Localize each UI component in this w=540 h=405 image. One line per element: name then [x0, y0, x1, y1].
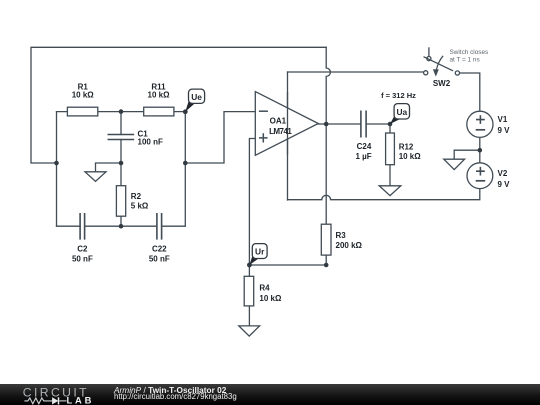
svg-text:200 kΩ: 200 kΩ: [336, 241, 363, 250]
svg-text:C24: C24: [357, 142, 372, 151]
svg-text:Ua: Ua: [396, 107, 407, 117]
svg-text:OA1: OA1: [270, 117, 287, 126]
wire output vertical with hop: [326, 47, 330, 124]
wire Ue vertical: [184, 112, 186, 226]
svg-text:100 nF: 100 nF: [138, 137, 163, 146]
svg-text:10 kΩ: 10 kΩ: [399, 152, 422, 161]
wire R4 stem: [248, 265, 250, 326]
wire left vertical R1/C2 branch: [56, 112, 58, 226]
ground at supply midpoint: [444, 159, 465, 169]
CircuitLab logo: [0, 384, 110, 405]
node dot Ue: [183, 109, 188, 114]
voltage source V2: [467, 163, 493, 189]
wire opamp power vertical: [287, 72, 289, 200]
svg-text:f = 312 Hz: f = 312 Hz: [381, 91, 416, 100]
wire R1 row: [57, 111, 186, 113]
wire Z path to inverting input: [185, 112, 255, 163]
resistor R11: [144, 107, 174, 116]
capacitor C22: [157, 213, 162, 240]
node dot Ur: [247, 263, 252, 268]
node dot output: [324, 122, 329, 127]
node dot Ue lower: [183, 161, 188, 166]
wire opamp output: [318, 123, 326, 125]
node label Ua: [390, 104, 410, 124]
wire C1 stem: [120, 112, 122, 163]
ground below R4: [239, 326, 260, 336]
node dot feedback left: [54, 161, 59, 166]
resistor R12: [386, 133, 395, 165]
svg-text:R4: R4: [259, 284, 270, 293]
svg-text:LAB: LAB: [67, 394, 95, 405]
resistor R4: [244, 276, 254, 306]
wire ground elbow at C1/R2 node: [96, 163, 122, 172]
node dot C1 top: [119, 109, 124, 114]
wire R2 stem: [120, 163, 122, 226]
svg-text:10 kΩ: 10 kΩ: [148, 90, 171, 99]
footer bar: [0, 384, 540, 405]
svg-text:10 kΩ: 10 kΩ: [72, 90, 95, 99]
wire twin-T bottom rail: [57, 225, 186, 227]
svg-text:SW2: SW2: [433, 79, 451, 88]
svg-text:C2: C2: [77, 244, 88, 253]
wire C24 row: [326, 123, 390, 125]
svg-text:50 nF: 50 nF: [72, 254, 93, 263]
ground below R12: [379, 186, 401, 196]
wire output down to R3: [325, 124, 327, 265]
svg-text:R3: R3: [336, 231, 347, 240]
svg-text:R2: R2: [131, 192, 142, 201]
voltage source V1: [467, 111, 493, 137]
svg-text:1 µF: 1 µF: [356, 152, 372, 161]
wire ground elbow at supply midpoint: [454, 150, 480, 159]
svg-text:LM741: LM741: [269, 127, 292, 136]
capacitor C2: [80, 213, 85, 240]
svg-text:R12: R12: [399, 143, 414, 152]
resistor R3: [321, 224, 331, 255]
wire V1 to V2: [479, 137, 481, 163]
node dot C1/R2: [119, 161, 124, 166]
wire non-inverting input: [249, 139, 255, 266]
node dot R3 bottom: [324, 263, 329, 268]
wire Ur row: [249, 264, 326, 266]
wire opamp V+ to switch: [288, 71, 424, 73]
node dot Ua: [388, 122, 393, 127]
wire switch to V1: [459, 73, 479, 111]
svg-text:C22: C22: [152, 244, 167, 253]
svg-text:at T = 1 ns: at T = 1 ns: [450, 57, 480, 64]
node dot R2 bottom: [119, 224, 124, 229]
svg-text:50 nF: 50 nF: [149, 254, 170, 263]
resistor R1: [67, 107, 97, 116]
svg-text:Ue: Ue: [191, 92, 202, 102]
op-amp OA1: [255, 92, 318, 156]
svg-text:10 kΩ: 10 kΩ: [259, 294, 282, 303]
svg-text:Ur: Ur: [255, 247, 265, 257]
opamp power vertical overdraw: [287, 92, 289, 155]
svg-text:5 kΩ: 5 kΩ: [131, 202, 149, 211]
switch SW2: [424, 47, 460, 76]
svg-text:Switch closes: Switch closes: [450, 49, 489, 56]
svg-text:V2: V2: [498, 169, 508, 178]
capacitor C1: [108, 135, 135, 140]
resistor R2: [116, 186, 125, 217]
node label Ue: [185, 89, 204, 112]
node dot supply midpoint: [478, 148, 483, 153]
ground at C1/R2 node: [85, 172, 106, 182]
capacitor C24: [361, 111, 366, 138]
credit text: [114, 386, 226, 394]
node label Ur: [249, 244, 267, 265]
svg-text:V1: V1: [498, 115, 508, 124]
svg-text:9 V: 9 V: [498, 126, 511, 135]
svg-text:9 V: 9 V: [498, 180, 511, 189]
wire R12 stem: [389, 124, 391, 186]
label switch closes: [450, 49, 489, 63]
wire top feedback loop: [31, 47, 326, 163]
wire bottom supply rail with hop: [288, 189, 480, 200]
